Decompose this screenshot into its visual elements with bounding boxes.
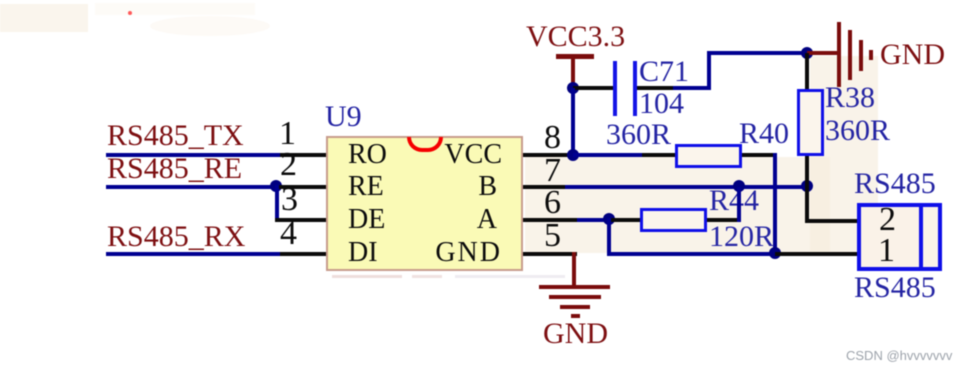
- VCC bar: [556, 54, 594, 59]
- net label RS485_TX: [107, 119, 244, 153]
- wire pin8 to R40 black: [642, 153, 675, 157]
- resistor R44 refdes: [709, 184, 759, 218]
- pin number 1: [279, 115, 296, 153]
- resistor R40 refdes: [739, 117, 789, 151]
- pin name VCC: [380, 139, 502, 171]
- power symbol VCC3.3: [526, 20, 625, 54]
- resistor R40 value 360R: [606, 118, 671, 152]
- wire pin8 to R40 navy: [573, 153, 642, 157]
- wire R40 down to A line: [773, 153, 777, 256]
- op IC U9 body: [326, 136, 523, 271]
- watermark: [846, 348, 952, 363]
- capacitor C71 left plate: [613, 61, 617, 116]
- connector divider: [919, 203, 923, 271]
- wire top to GND: [707, 51, 807, 55]
- ground label GND top-right: [880, 38, 945, 72]
- pin number 3: [281, 181, 298, 219]
- wire VCC red vertical: [571, 56, 575, 89]
- wire connector pin1 lead: [775, 252, 857, 256]
- ground bar2: [549, 295, 601, 299]
- pin number 2: [280, 146, 297, 184]
- connector pin number 1: [878, 232, 895, 270]
- pin name RE: [348, 171, 384, 203]
- pin name A: [380, 204, 497, 236]
- ground bar3: [560, 305, 590, 309]
- resistor R40 body: [675, 144, 742, 168]
- node top GND junction: [801, 47, 813, 59]
- capacitor C71 right plate: [633, 61, 637, 116]
- resistor R38 bottom wire: [805, 156, 809, 187]
- wire pin7 stub: [523, 185, 565, 189]
- pin number 6: [544, 184, 561, 222]
- node bottom junction: [769, 247, 781, 259]
- wire pin5 stub: [523, 252, 577, 256]
- wire pin4 stub: [280, 252, 328, 256]
- ground bar4: [869, 50, 873, 60]
- background tint patches: [0, 4, 88, 32]
- wire junction to C71: [573, 86, 613, 90]
- wire C71 up: [707, 51, 711, 90]
- connector J body: [857, 203, 942, 271]
- connector RS485 bottom label: [854, 271, 936, 305]
- wire R44 right: [707, 218, 741, 222]
- node junction pin2/pin3: [270, 180, 282, 192]
- resistor R38 value 360R: [825, 114, 890, 148]
- pin name DI: [348, 237, 378, 269]
- ground bar2: [848, 30, 852, 80]
- resistor R38 top wire: [805, 53, 809, 91]
- connector pin number 2: [879, 201, 896, 239]
- wire C71 right: [637, 86, 673, 90]
- IC U9 refdes: [325, 100, 362, 134]
- wire pin6 stub: [523, 218, 577, 222]
- IC notch arc: [407, 137, 443, 152]
- wire R44 up to B: [737, 187, 741, 222]
- wire connector pin2 lead: [805, 219, 857, 223]
- wire VCC down to pin8: [571, 88, 575, 155]
- wire B down to connector pin2: [805, 187, 809, 223]
- resistor R44 value 120R: [709, 220, 774, 254]
- net label RS485_RX: [107, 220, 245, 254]
- connector RS485 top label: [854, 167, 936, 201]
- ground label GND bottom: [543, 317, 608, 351]
- capacitor C71 refdes: [639, 55, 689, 89]
- pin name GND: [380, 237, 502, 269]
- ground bar1: [539, 285, 610, 289]
- resistor R44 body: [640, 208, 707, 232]
- node B-R38 junction: [801, 180, 813, 192]
- pin name DE: [348, 204, 385, 236]
- wire RS485_RE: [106, 185, 277, 189]
- wire pin2 stub: [277, 185, 328, 189]
- net label RS485_RE: [107, 152, 242, 186]
- pin name RO: [348, 139, 387, 171]
- ground bar3: [859, 40, 863, 71]
- ground symbol GND top-right bar1: [837, 22, 841, 87]
- node pin8 junction: [567, 149, 579, 161]
- wire pin1 stub: [280, 153, 328, 157]
- wire R40 right: [742, 153, 777, 157]
- pin number 4: [280, 215, 297, 253]
- wire A down: [607, 218, 611, 256]
- resistor R38 refdes: [825, 81, 875, 115]
- wire pin6 navy: [577, 218, 611, 222]
- ground symbol GND bottom lead: [572, 252, 576, 287]
- node B-R44 junction: [733, 180, 745, 192]
- ghost marks under IC: [332, 275, 402, 278]
- wire C71 right navy: [673, 86, 711, 90]
- pin number 5: [544, 217, 561, 255]
- ground bar4: [571, 314, 580, 318]
- pin name B: [380, 171, 497, 203]
- pin number 8: [544, 119, 561, 157]
- wire GND lead: [807, 51, 838, 55]
- wire A bottom line: [607, 252, 775, 256]
- node A junction: [603, 213, 615, 225]
- wire RS485_RX: [106, 252, 280, 256]
- wire RE-DE vertical: [275, 185, 279, 222]
- node VCC-C71 junction: [567, 82, 579, 94]
- wire RS485_TX: [106, 153, 280, 157]
- wire pin8 stub: [523, 153, 573, 157]
- wire B line: [565, 185, 809, 189]
- wire A to R44: [609, 218, 640, 222]
- pin number 7: [544, 152, 561, 190]
- wire pin3 stub: [275, 218, 328, 222]
- resistor R38 body: [797, 89, 824, 156]
- capacitor C71 value 104: [639, 87, 684, 121]
